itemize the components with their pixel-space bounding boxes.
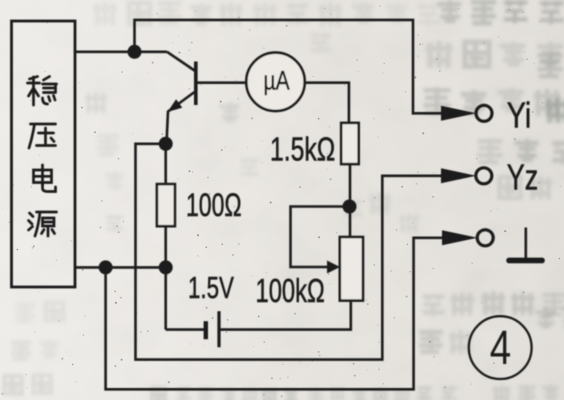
resistor R 1.5k xyxy=(341,123,359,164)
wiper link wire xyxy=(291,207,350,268)
transistor base wire to meter xyxy=(196,81,247,84)
transistor emitter with arrow xyxy=(167,92,195,144)
figure number circle 4 xyxy=(469,316,532,379)
ammeter U1 (µA) xyxy=(246,53,304,111)
terminal Yi arrow xyxy=(441,106,476,121)
svg-text:Yi: Yi xyxy=(507,94,532,135)
svg-text:Yz: Yz xyxy=(507,156,538,197)
node: emitter junction dot xyxy=(159,137,173,151)
potentiometer R 100k xyxy=(340,237,363,301)
node: junction dot at pot top xyxy=(343,200,357,214)
transistor Q (collector diagonal) xyxy=(167,52,195,71)
terminal ground arrow xyxy=(442,230,478,245)
wire: pot bottom to battery xyxy=(219,301,351,330)
wire: up from junction and top rail to Yi corner xyxy=(135,20,445,113)
svg-text:100kΩ: 100kΩ xyxy=(256,273,325,310)
svg-text:µA: µA xyxy=(264,66,291,96)
wire: box top output to transistor collector xyxy=(75,50,167,53)
ground symbol xyxy=(524,228,527,259)
wire: outer loop to ground terminal xyxy=(106,238,444,389)
terminal ground circle xyxy=(477,230,493,246)
transistor base bar xyxy=(194,62,198,106)
battery BT 1.5V xyxy=(217,311,220,347)
node: junction dot top xyxy=(128,45,142,59)
wire: battery up to lower node xyxy=(164,267,167,329)
svg-text:4: 4 xyxy=(490,322,511,375)
resistor R 100 xyxy=(164,144,167,184)
power supply box (稳压电源) xyxy=(12,21,76,287)
terminal Yz circle xyxy=(476,168,492,184)
电 xyxy=(34,165,56,192)
wire: meter to 1.5k resistor xyxy=(305,83,349,123)
node: junction dot on box output xyxy=(99,260,113,274)
node: junction dot lower xyxy=(159,260,173,274)
压 xyxy=(29,124,56,148)
svg-text:1.5V: 1.5V xyxy=(188,270,234,304)
terminal Yi circle xyxy=(476,105,492,121)
label 稳压电源 (drawn glyphs) xyxy=(28,77,57,237)
源 xyxy=(29,212,57,236)
wire: 1.5k down to pot top xyxy=(349,164,352,237)
svg-text:1.5kΩ: 1.5kΩ xyxy=(270,132,335,168)
稳 xyxy=(28,77,57,106)
svg-text:100Ω: 100Ω xyxy=(186,187,242,223)
wiper arrow xyxy=(327,261,340,274)
terminal Yz arrow xyxy=(441,168,476,183)
wire: emitter node left and down to Yz loop xyxy=(136,144,445,360)
wire: box bottom output xyxy=(75,266,166,269)
